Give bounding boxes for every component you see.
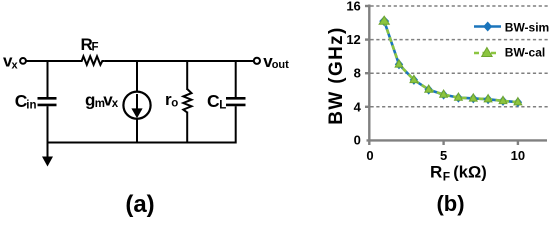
svg-text:C: C [207, 91, 220, 111]
series BW-cal line [384, 21, 518, 102]
svg-text:F: F [92, 42, 99, 54]
wire Cin top [47, 60, 49, 97]
svg-text:F: F [443, 169, 450, 183]
chart y-axis [365, 5, 369, 142]
series BW-sim markers [379, 16, 522, 107]
chart y tick labels [346, 0, 361, 148]
chart x tick labels [366, 148, 525, 163]
svg-text:4: 4 [354, 99, 362, 114]
svg-text:x: x [112, 98, 119, 110]
wire CL top [235, 60, 237, 97]
svg-text:o: o [171, 97, 178, 109]
node vout label [263, 52, 289, 71]
svg-text:BW-cal: BW-cal [505, 46, 545, 60]
svg-text:16: 16 [346, 0, 360, 14]
svg-text:10: 10 [511, 148, 525, 163]
terminal vx [20, 58, 26, 64]
svg-text:BW-sim: BW-sim [505, 20, 549, 34]
label RF [81, 35, 99, 54]
chart x axis title RF (kOhm) [430, 163, 487, 184]
svg-text:in: in [26, 99, 36, 111]
node vx label [3, 52, 19, 72]
svg-text:x: x [12, 59, 19, 71]
svg-text:8: 8 [354, 66, 361, 81]
legend BW-cal [474, 46, 545, 60]
legend BW-sim [474, 20, 549, 34]
wire top rail right [105, 60, 254, 62]
svg-text:L: L [219, 100, 226, 112]
current source gmvx [123, 92, 150, 119]
label CL [207, 91, 226, 112]
label Cin [15, 91, 37, 111]
resistor ro [183, 89, 191, 113]
label gmvx [85, 90, 119, 110]
chart gridlines [371, 6, 549, 107]
label ro [165, 90, 178, 109]
svg-text:out: out [272, 59, 289, 71]
terminal vout [254, 58, 260, 64]
wire current source bottom [136, 118, 138, 143]
svg-text:(kΩ): (kΩ) [453, 164, 486, 182]
svg-text:R: R [430, 163, 442, 182]
svg-text:12: 12 [346, 32, 360, 47]
series BW-sim line [384, 21, 518, 102]
svg-text:5: 5 [440, 148, 447, 163]
resistor RF [80, 56, 105, 65]
ground [42, 143, 53, 167]
svg-text:BW (GHz): BW (GHz) [326, 26, 347, 124]
svg-text:0: 0 [354, 133, 361, 148]
wire ro top [186, 60, 188, 90]
wire ro bottom [186, 112, 188, 144]
svg-text:(a): (a) [125, 191, 154, 218]
capacitor CL [226, 98, 246, 105]
chart x-axis [367, 140, 548, 145]
series BW-cal markers [379, 16, 522, 105]
wire top rail left [26, 60, 82, 62]
svg-text:0: 0 [366, 148, 373, 163]
wire Cin bottom [47, 106, 49, 143]
capacitor Cin [38, 98, 57, 105]
svg-text:(b): (b) [436, 191, 464, 216]
wire current source top [136, 60, 138, 92]
wire CL bottom [235, 106, 237, 143]
wire bottom rail [48, 142, 236, 144]
